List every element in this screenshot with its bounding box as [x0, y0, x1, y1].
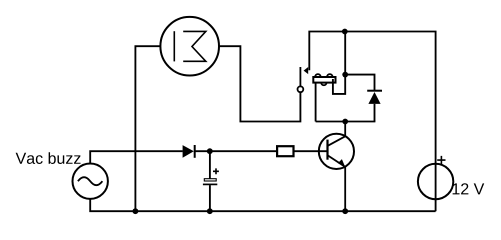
wire: Q1 emitter diagonal down to bottom rail — [328, 155, 346, 211]
value label: 12 V — [453, 183, 485, 194]
transistor Q1 (NPN) — [319, 134, 354, 169]
wire: switch bottom terminal down and left to buzzer right lead — [219, 46, 300, 121]
diode D1 (series rectifier) — [183, 145, 195, 158]
wire: relay coil right lead step up to top rail — [333, 32, 345, 94]
capacitor C1 (polarized) — [203, 151, 219, 211]
wire: D1 cathode to resistor R1 — [195, 150, 277, 152]
junction: signal line / capacitor C1 top — [207, 148, 213, 154]
AC source V1 (Vac buzz) — [73, 164, 108, 199]
junction: bottom rail / Q1 emitter — [342, 208, 348, 214]
wire: Q1 collector diagonal up to relay coil node — [328, 122, 346, 146]
wire: relay contact drop, top rail and right rail down to bottom-right corner — [309, 32, 435, 212]
buzzer BZ1 — [160, 17, 219, 76]
junction: top rail / relay coil node — [342, 29, 348, 35]
junction: bottom rail / buzzer-left wire — [133, 208, 139, 214]
wire: node to flyback diode D2 cathode — [345, 75, 374, 91]
wire: V1 top lead and signal line to diode D1 (crosses left wire, no junction) — [90, 151, 183, 163]
wire: R1 to Q1 base — [294, 150, 328, 152]
relay K1 coil — [313, 74, 335, 121]
flyback diode D2 — [367, 91, 382, 104]
voltage source V2 (12 V DC) — [418, 156, 453, 199]
wire: buzzer left lead down to bottom rail (crosses signal line, no junction) — [135, 46, 160, 211]
junction: bottom rail / capacitor C1 — [207, 208, 213, 214]
relay K1 contact (switch with moving-contact arrow) — [298, 67, 309, 92]
wire: bottom rail from V2 corner to AC source V1 bottom lead — [90, 199, 435, 211]
resistor R1 — [277, 146, 293, 156]
label: Vac buzz — [16, 152, 81, 164]
wire: D2 anode down to coil bottom node — [374, 104, 376, 122]
junction: collector / coil bottom node — [342, 119, 348, 125]
junction: coil-top / flyback cathode node — [342, 72, 348, 78]
wire: coil bottom node horizontal (coil left lead to D2 anode) — [316, 121, 376, 123]
